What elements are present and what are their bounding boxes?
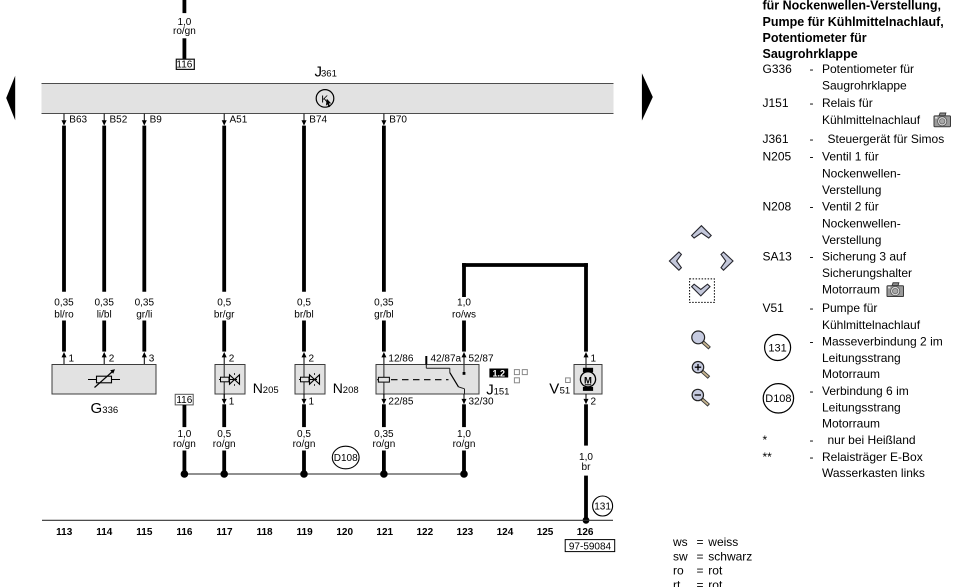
svg-text:Wasserkasten links: Wasserkasten links [822, 466, 925, 480]
svg-text:li/bl: li/bl [97, 309, 112, 320]
svg-text:=: = [697, 564, 704, 578]
svg-text:-: - [810, 62, 814, 76]
svg-text:Verstellung: Verstellung [822, 233, 881, 247]
svg-text:D108: D108 [765, 393, 791, 405]
svg-text:125: 125 [537, 527, 554, 538]
svg-text:-: - [810, 433, 814, 447]
svg-text:V: V [549, 381, 559, 398]
svg-text:Ventil 1 für: Ventil 1 für [822, 150, 879, 164]
svg-text:D108: D108 [334, 453, 358, 464]
svg-text:N: N [253, 380, 263, 396]
svg-text:weiss: weiss [707, 535, 738, 549]
svg-text:51: 51 [560, 386, 571, 397]
svg-text:131: 131 [594, 502, 611, 513]
svg-text:2: 2 [229, 353, 235, 364]
svg-text:123: 123 [457, 527, 474, 538]
svg-text:rot: rot [708, 578, 723, 587]
svg-text:116: 116 [176, 527, 193, 538]
svg-text:116: 116 [176, 395, 192, 406]
svg-text:Kühlmittelnachlauf: Kühlmittelnachlauf [822, 318, 921, 332]
svg-text:52/87: 52/87 [469, 353, 494, 364]
svg-text:schwarz: schwarz [708, 549, 752, 563]
svg-text:0,5: 0,5 [217, 298, 231, 309]
svg-text:131: 131 [768, 342, 786, 354]
svg-text:124: 124 [497, 527, 514, 538]
svg-text:-: - [810, 450, 814, 464]
svg-text:115: 115 [136, 527, 153, 538]
svg-text:Leitungsstrang: Leitungsstrang [822, 351, 901, 365]
svg-text:A51: A51 [230, 115, 248, 126]
svg-text:0,5: 0,5 [297, 298, 311, 309]
svg-text:1: 1 [229, 397, 235, 408]
svg-text:Nockenwellen-: Nockenwellen- [822, 167, 901, 181]
svg-text:für Nockenwellen-Verstellung,: für Nockenwellen-Verstellung, [763, 0, 942, 13]
svg-text:2: 2 [309, 353, 315, 364]
svg-text:0,35: 0,35 [54, 298, 74, 309]
svg-text:Verstellung: Verstellung [822, 183, 881, 197]
svg-text:**: ** [763, 450, 773, 464]
svg-text:Leitungsstrang: Leitungsstrang [822, 401, 901, 415]
svg-text:ws: ws [672, 535, 688, 549]
svg-text:ro/gn: ro/gn [173, 26, 196, 37]
svg-text:sw: sw [673, 549, 688, 563]
svg-text:0,35: 0,35 [374, 298, 394, 309]
svg-text:=: = [697, 535, 704, 549]
svg-text:N208: N208 [763, 200, 792, 214]
svg-text:205: 205 [263, 385, 279, 396]
svg-text:1.2: 1.2 [493, 368, 506, 378]
svg-text:=: = [697, 578, 704, 587]
svg-text:ro/gn: ro/gn [213, 439, 236, 450]
svg-text:Relaisträger E-Box: Relaisträger E-Box [822, 450, 923, 464]
svg-text:Motorraum: Motorraum [822, 416, 880, 430]
svg-text:gr/li: gr/li [136, 309, 152, 320]
svg-text:J151: J151 [763, 96, 789, 110]
svg-text:Ventil 2 für: Ventil 2 für [822, 200, 879, 214]
svg-text:*: * [763, 433, 768, 447]
svg-text:Verbindung 6 im: Verbindung 6 im [822, 384, 909, 398]
svg-text:1: 1 [309, 397, 315, 408]
svg-text:Sicherung 3 auf: Sicherung 3 auf [822, 250, 907, 264]
svg-text:-: - [810, 384, 814, 398]
svg-text:126: 126 [577, 527, 594, 538]
svg-text:Motorraum: Motorraum [822, 367, 880, 381]
svg-text:118: 118 [256, 527, 273, 538]
svg-text:br: br [582, 462, 592, 473]
svg-text:br/gr: br/gr [214, 309, 235, 320]
svg-text:208: 208 [343, 385, 359, 396]
svg-text:-: - [810, 301, 814, 315]
svg-text:Saugrohrklappe: Saugrohrklappe [763, 47, 858, 61]
svg-text:=: = [697, 549, 704, 563]
svg-text:2: 2 [591, 397, 597, 408]
svg-text:nur bei Heißland: nur bei Heißland [828, 433, 916, 447]
svg-text:J: J [486, 381, 494, 398]
svg-text:113: 113 [56, 527, 73, 538]
svg-text:12/86: 12/86 [388, 353, 413, 364]
svg-text:116: 116 [176, 60, 192, 71]
svg-text:Motorraum: Motorraum [822, 283, 880, 297]
svg-text:122: 122 [416, 527, 433, 538]
svg-text:SA13: SA13 [763, 250, 793, 264]
svg-text:V51: V51 [763, 301, 785, 315]
svg-text:97-59084: 97-59084 [569, 541, 612, 552]
svg-text:bl/ro: bl/ro [54, 309, 74, 320]
svg-text:Relais für: Relais für [822, 96, 873, 110]
svg-text:114: 114 [96, 527, 113, 538]
svg-text:0,35: 0,35 [94, 298, 114, 309]
svg-text:Pumpe für Kühlmittelnachlauf,: Pumpe für Kühlmittelnachlauf, [763, 15, 944, 29]
svg-text:42/87a: 42/87a [431, 353, 462, 364]
svg-text:Saugrohrklappe: Saugrohrklappe [822, 79, 907, 93]
svg-text:-: - [810, 335, 814, 349]
svg-text:Sicherungshalter: Sicherungshalter [822, 266, 912, 280]
svg-text:361: 361 [321, 69, 337, 80]
svg-text:121: 121 [376, 527, 393, 538]
svg-text:Nockenwellen-: Nockenwellen- [822, 216, 901, 230]
svg-text:ro/gn: ro/gn [373, 439, 396, 450]
svg-text:J361: J361 [763, 132, 789, 146]
svg-text:22/85: 22/85 [388, 397, 413, 408]
svg-text:ro/gn: ro/gn [453, 439, 476, 450]
svg-text:-: - [810, 250, 814, 264]
svg-text:ro: ro [673, 564, 684, 578]
svg-text:G: G [91, 400, 103, 417]
svg-text:B63: B63 [69, 115, 87, 126]
svg-text:Potentiometer für: Potentiometer für [763, 31, 867, 45]
svg-text:B52: B52 [110, 115, 128, 126]
svg-text:1: 1 [69, 353, 75, 364]
svg-text:ro/ws: ro/ws [452, 309, 476, 320]
svg-text:120: 120 [336, 527, 353, 538]
svg-text:117: 117 [216, 527, 233, 538]
svg-text:119: 119 [297, 527, 314, 538]
svg-text:3: 3 [149, 353, 155, 364]
svg-text:rt: rt [673, 578, 681, 587]
svg-text:Steuergerät für Simos: Steuergerät für Simos [828, 132, 945, 146]
svg-text:B74: B74 [309, 115, 327, 126]
svg-text:N: N [333, 380, 343, 396]
svg-text:-: - [810, 132, 814, 146]
svg-text:B70: B70 [389, 115, 407, 126]
svg-text:1: 1 [591, 353, 597, 364]
svg-text:-: - [810, 96, 814, 110]
svg-text:Pumpe für: Pumpe für [822, 301, 877, 315]
svg-text:br/bl: br/bl [294, 309, 313, 320]
svg-text:151: 151 [494, 386, 510, 397]
svg-text:Kühlmittelnachlauf: Kühlmittelnachlauf [822, 113, 921, 127]
svg-text:ro/gn: ro/gn [173, 439, 196, 450]
svg-text:2: 2 [109, 353, 115, 364]
svg-text:-: - [810, 200, 814, 214]
svg-text:B9: B9 [150, 115, 163, 126]
svg-text:Masseverbindung 2 im: Masseverbindung 2 im [822, 335, 943, 349]
svg-text:G336: G336 [763, 62, 793, 76]
svg-text:Potentiometer für: Potentiometer für [822, 62, 914, 76]
svg-text:N205: N205 [763, 150, 792, 164]
svg-text:gr/bl: gr/bl [374, 309, 393, 320]
svg-text:rot: rot [708, 564, 723, 578]
svg-text:-: - [810, 150, 814, 164]
svg-text:0,35: 0,35 [135, 298, 155, 309]
svg-text:ro/gn: ro/gn [293, 439, 316, 450]
svg-text:1,0: 1,0 [457, 298, 471, 309]
svg-text:336: 336 [102, 405, 118, 416]
